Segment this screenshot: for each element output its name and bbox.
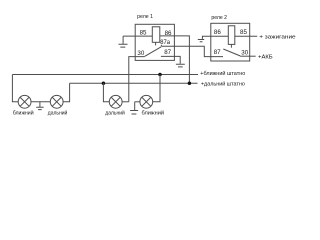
relay U2 label — [211, 15, 227, 21]
node: ignition label — [259, 34, 295, 40]
pin 87a label (relay 1) — [160, 40, 170, 46]
ground (between L1 and L2) — [36, 102, 43, 110]
pin 85 label (relay 1) — [140, 30, 147, 37]
lamp L2 (left high beam) — [50, 95, 63, 108]
ground (relay1 pin87) — [176, 64, 185, 67]
relay U1 label — [137, 14, 153, 20]
wire pin30 relay2 out right to battery — [240, 55, 256, 57]
relay U2 coil — [228, 26, 235, 45]
relay U1 coil — [152, 27, 160, 43]
svg-text:ближний: ближний — [142, 109, 165, 116]
node dot: lamp L4 tap on low-beam bus — [158, 73, 162, 77]
wire: high-beam bus left drop to lamp L2 — [63, 83, 70, 102]
svg-text:30: 30 — [241, 50, 248, 57]
relay U1 box — [135, 24, 174, 60]
lamp L2 label — [48, 109, 68, 116]
svg-text:+ближний штатно: +ближний штатно — [200, 70, 245, 77]
relay U2 box — [211, 23, 250, 61]
coil2 armature tick — [230, 44, 232, 47]
wire lamp L4 left lead — [135, 101, 140, 103]
pin 85 label (relay 2) — [240, 29, 247, 36]
lamp L4 (right low beam) — [140, 95, 153, 108]
wire between lamp L1 and L2 — [31, 101, 50, 103]
wire: low-beam bus left drop to lamp L1 — [12, 75, 18, 102]
wire lamp L3 right lead to relay1 pin30 drop — [122, 101, 129, 103]
wire: high-beam bus — [70, 82, 198, 84]
node dot: relay1 pin86 junction on high-beam bus — [188, 82, 192, 86]
wire: drop from high-beam bus to lamp L3 — [103, 83, 109, 102]
wire pin85 to coil1 — [123, 35, 152, 37]
node: battery label — [258, 54, 273, 60]
svg-text:87: 87 — [164, 49, 171, 56]
wire coil2 pin85 out right to ignition — [235, 35, 257, 37]
relay U2 switch arm — [223, 49, 240, 56]
wire pin30 relay1 out left and down to right lamp pair — [129, 57, 145, 102]
lamp L1 label — [13, 109, 34, 116]
wire: drop from low-beam bus to lamp L4 — [153, 75, 160, 102]
svg-text:85: 85 — [140, 30, 147, 37]
relay U1 switch arm — [145, 47, 161, 57]
svg-text:+дальний штатно: +дальний штатно — [201, 80, 245, 87]
svg-text:+ зажигание: + зажигание — [259, 34, 295, 40]
pin 30 label (relay 1) — [137, 50, 144, 57]
lamp L4 label — [142, 109, 165, 116]
svg-text:реле 1: реле 1 — [137, 14, 153, 20]
pin 87 label (relay 2) — [214, 49, 221, 56]
ground (relay2 pin86) — [198, 40, 204, 42]
ground (relay1 pin85) — [119, 44, 128, 47]
svg-text:дальний: дальний — [48, 109, 68, 116]
svg-text:+АКБ: +АКБ — [258, 54, 273, 60]
node: high-beam label — [201, 80, 245, 87]
wire coil1 to pin86 and down to high-beam bus — [160, 36, 190, 83]
ground (lamp L4) — [130, 102, 138, 114]
lamp L3 label — [105, 109, 125, 116]
pin 87 label (relay 1) — [164, 49, 171, 56]
pin 87a contact stub — [160, 45, 162, 46]
pin 86 label (relay 2) — [214, 29, 221, 36]
wire pin86 to coil2 and out left to ground stem — [202, 36, 228, 39]
lamp L3 (right high beam) — [109, 95, 122, 108]
svg-text:ближний: ближний — [13, 109, 34, 116]
svg-text:86: 86 — [214, 29, 221, 36]
svg-text:реле 2: реле 2 — [211, 15, 227, 21]
pin87 relay1 contact and wire right to ground — [161, 56, 180, 63]
svg-text:85: 85 — [240, 29, 247, 36]
wire: low-beam bus — [12, 74, 198, 76]
coil1 armature tick — [155, 42, 157, 45]
wire pin85 relay1 down to ground — [122, 36, 124, 44]
svg-text:87: 87 — [214, 49, 221, 56]
pin 86 label (relay 1) — [165, 30, 172, 37]
wire pin87a relay1 to pin87 relay2 — [161, 46, 223, 56]
lamp L1 (left low beam) — [18, 95, 31, 108]
node dot: lamp L3 tap on high-beam bus — [102, 82, 106, 86]
node: low-beam label — [200, 70, 245, 77]
pin 30 label (relay 2) — [241, 50, 248, 57]
svg-text:дальний: дальний — [105, 109, 125, 116]
